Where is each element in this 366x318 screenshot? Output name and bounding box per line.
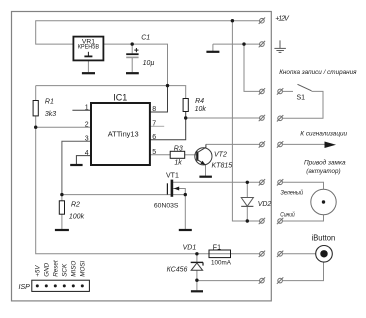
wire row9 — [197, 280, 260, 282]
wire R1 down to iButton data corner — [36, 116, 260, 254]
wire R3 to VT2 base — [185, 154, 198, 156]
svg-text:10µ: 10µ — [143, 60, 155, 67]
wire gate line R2 node to VT1 source — [62, 194, 185, 196]
svg-text:ISP: ISP — [19, 284, 31, 291]
svg-text:iButton: iButton — [312, 233, 336, 243]
wire pin 4 to ground — [76, 156, 91, 165]
svg-text:4: 4 — [85, 150, 89, 157]
svg-text:GND: GND — [44, 262, 51, 276]
wire VR1 ground stub — [87, 60, 89, 72]
iButton wires — [282, 253, 315, 255]
resistor R3 — [170, 151, 185, 158]
svg-text:(актуатор): (актуатор) — [306, 168, 340, 175]
svg-text:SCK: SCK — [62, 263, 69, 277]
wire VT2 emitter to ground — [205, 165, 207, 176]
ground below VT2 — [199, 176, 212, 178]
ISP pin names — [35, 260, 87, 277]
capacitor C1 — [126, 53, 138, 55]
svg-text:Кнопка записи / стирания: Кнопка записи / стирания — [279, 69, 357, 76]
PCB board outline — [12, 12, 272, 301]
wire VD1 leads — [196, 254, 198, 262]
svg-text:10k: 10k — [195, 106, 207, 113]
ground below R2 — [55, 229, 69, 231]
svg-text:7: 7 — [152, 121, 156, 128]
svg-text:VD1: VD1 — [183, 244, 197, 251]
svg-text:3k3: 3k3 — [45, 111, 56, 118]
svg-text:R2: R2 — [71, 201, 80, 208]
wire pin 3 to R2 node — [62, 141, 91, 194]
svg-text:К сигнализации: К сигнализации — [300, 131, 347, 138]
wire pin 1 stub — [72, 109, 91, 111]
svg-text:C1: C1 — [141, 34, 150, 41]
svg-text:Reset: Reset — [53, 260, 60, 277]
svg-text:100k: 100k — [69, 214, 85, 221]
svg-text:100mA: 100mA — [211, 260, 232, 267]
ground below pin 4 — [70, 164, 82, 166]
svg-text:КС456: КС456 — [167, 266, 188, 273]
ground below VD1 — [191, 290, 203, 292]
svg-text:3: 3 — [85, 136, 89, 143]
IC1 box — [91, 103, 150, 165]
svg-text:ATTiny13: ATTiny13 — [108, 129, 139, 138]
wire rail to R1 — [35, 86, 37, 101]
wire +5V rail — [36, 86, 186, 99]
svg-text:S1: S1 — [297, 94, 306, 101]
wire row6 VT1 drain to terminal — [173, 181, 260, 183]
svg-text:MOSI: MOSI — [80, 260, 87, 276]
iButton probe — [316, 246, 333, 263]
wire VT1 source — [173, 189, 186, 230]
svg-text:Зеленый: Зеленый — [281, 189, 304, 197]
svg-text:VT2: VT2 — [214, 151, 227, 158]
svg-text:VT1: VT1 — [166, 172, 179, 179]
svg-text:8: 8 — [152, 106, 156, 113]
svg-text:R4: R4 — [195, 98, 204, 105]
svg-text:60N03S: 60N03S — [154, 202, 179, 209]
svg-text:+5V: +5V — [35, 265, 42, 277]
wire GND bus to row3 — [244, 44, 260, 91]
wire pin 2 — [36, 126, 91, 128]
svg-text:+12V: +12V — [275, 16, 290, 23]
switch S1 — [282, 90, 293, 92]
ground below VR1 — [82, 72, 95, 74]
svg-text:1k: 1k — [174, 159, 182, 166]
wire row4 R4 node to terminal — [186, 117, 260, 119]
zener VD1 — [191, 261, 203, 263]
ISP connector — [32, 280, 90, 291]
external connector pins — [277, 88, 283, 284]
wire row2 — [213, 43, 260, 45]
earth ground symbol at +12V input — [274, 40, 286, 52]
wire R4 bottom to pin 6 — [150, 112, 186, 140]
voltage regulator VR1 — [73, 37, 103, 61]
svg-text:Привод замка: Привод замка — [304, 159, 346, 167]
svg-text:Синий: Синий — [280, 210, 295, 218]
svg-text:KT815: KT815 — [212, 162, 233, 169]
wire VD2 branch — [246, 182, 248, 221]
wire C1 leads — [131, 44, 133, 53]
terminal pins (board edge) — [259, 18, 284, 284]
MOSFET VT1 — [171, 180, 174, 197]
diode VD2 — [241, 198, 253, 207]
svg-text:1: 1 — [85, 104, 89, 111]
svg-text:IC1: IC1 — [113, 93, 127, 103]
wire R2 leads — [61, 195, 63, 201]
ground below VT1 source — [179, 229, 192, 231]
resistor R2 — [59, 201, 64, 214]
wire row2 ground stub — [212, 44, 214, 51]
svg-text:R1: R1 — [45, 99, 54, 106]
wire pin 5 to R3 — [150, 154, 170, 156]
wire VR1 output to C1 to corner — [103, 44, 167, 86]
svg-text:6: 6 — [152, 134, 156, 141]
resistor R1 — [33, 101, 38, 116]
wire +12V top — [36, 21, 260, 44]
actuator motor — [311, 189, 336, 214]
svg-text:КРЕН5В: КРЕН5В — [78, 44, 99, 51]
transistor VT2 — [195, 148, 212, 165]
svg-text:MISO: MISO — [71, 261, 78, 277]
ground below C1 — [126, 72, 139, 74]
svg-text:2: 2 — [85, 121, 89, 128]
svg-text:F1: F1 — [213, 244, 221, 251]
alarm output wire and arrow — [282, 143, 330, 145]
fuse F1 — [209, 250, 231, 258]
resistor R4 — [183, 99, 188, 112]
ground at row2 — [206, 51, 219, 53]
wire pin 7 stub — [150, 125, 164, 127]
wire +12V bus down to row7 — [232, 21, 259, 221]
actuator wires — [282, 182, 323, 189]
wire VT2 collector row5 to terminal — [206, 143, 260, 145]
svg-text:5: 5 — [152, 149, 156, 156]
svg-text:VD2: VD2 — [258, 201, 272, 208]
svg-text:R3: R3 — [174, 145, 183, 152]
